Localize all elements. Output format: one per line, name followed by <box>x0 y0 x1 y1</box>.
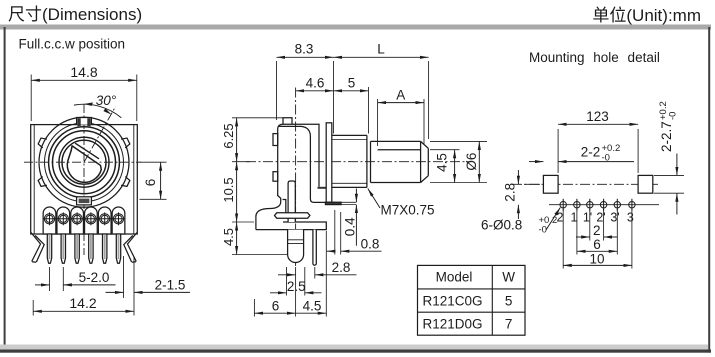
dimension 14.2 <box>32 300 34 316</box>
svg-text:1: 1 <box>571 210 578 224</box>
left tab upper <box>273 134 278 146</box>
dimension 4.5 side <box>296 312 327 314</box>
model table frame <box>418 265 526 335</box>
top tab side <box>283 118 292 124</box>
svg-text:3: 3 <box>627 210 634 224</box>
svg-text:2-2.7: 2-2.7 <box>659 121 674 152</box>
plate foot <box>325 202 341 204</box>
shaft <box>371 141 421 182</box>
svg-text:10: 10 <box>589 251 604 266</box>
dimension 6.25 <box>232 118 289 255</box>
svg-text:3': 3' <box>610 210 619 224</box>
svg-text:2.5: 2.5 <box>287 279 306 294</box>
centerline horizontal front view <box>24 161 141 163</box>
bushing end <box>367 135 371 187</box>
svg-text:6.25: 6.25 <box>221 123 236 148</box>
svg-text:-0: -0 <box>602 153 610 164</box>
rotor circle r22 <box>62 140 106 184</box>
svg-text:10.5: 10.5 <box>221 177 236 202</box>
svg-text:R121D0G: R121D0G <box>422 317 482 332</box>
svg-text:7: 7 <box>505 317 513 332</box>
dimension 5 <box>368 87 370 134</box>
dimension 6 mount <box>577 209 617 255</box>
left tab lower <box>273 172 278 182</box>
svg-text:-0: -0 <box>668 112 679 120</box>
pin eyelets <box>43 212 125 225</box>
frame right border <box>708 27 710 353</box>
frame top grey bar <box>0 25 711 30</box>
body base <box>256 222 326 230</box>
svg-text:8.3: 8.3 <box>295 42 314 57</box>
D-shaft hole <box>67 146 101 182</box>
svg-text:14.2: 14.2 <box>69 295 96 311</box>
svg-text:M7X0.75: M7X0.75 <box>381 203 435 218</box>
svg-text:Full.c.c.w position: Full.c.c.w position <box>19 37 126 52</box>
corner tab top-left <box>38 137 47 148</box>
top tab <box>77 118 92 125</box>
svg-text:30°: 30° <box>96 93 117 108</box>
svg-text:2-1.5: 2-1.5 <box>155 278 186 293</box>
svg-text:2.8: 2.8 <box>332 260 351 275</box>
dimension 2 mount <box>590 209 604 241</box>
svg-text:Model: Model <box>436 270 473 285</box>
terminal flange bar <box>275 213 310 218</box>
svg-text:0.4: 0.4 <box>342 217 357 236</box>
dimension 6 front <box>140 162 167 199</box>
dimension 8.3 <box>277 61 334 134</box>
frame bottom light bar <box>0 345 708 350</box>
frame left border <box>4 27 6 346</box>
label M7X0.75 <box>368 189 380 209</box>
mounting plate <box>326 123 332 203</box>
dimension 0.4 <box>341 202 356 204</box>
pin legs <box>47 234 120 263</box>
svg-text:2: 2 <box>593 223 601 238</box>
dimension 14.8 <box>31 75 137 122</box>
centerline horizontal side view <box>246 161 472 163</box>
svg-text:2.8: 2.8 <box>503 183 518 202</box>
svg-text:4.6: 4.6 <box>306 75 325 90</box>
rear leg side view <box>313 230 316 266</box>
svg-text:W: W <box>502 270 515 285</box>
svg-text:L: L <box>377 42 385 57</box>
centerline mounting detail <box>512 183 660 185</box>
svg-text:-0: -0 <box>539 225 547 236</box>
dimension 4.5 shaft <box>430 150 487 183</box>
dimension L <box>428 61 430 139</box>
dimension 4.5 left <box>236 222 238 255</box>
mounting slot right <box>638 175 653 193</box>
mounting slot left <box>543 175 558 193</box>
body lower-left step <box>256 196 281 230</box>
body inner profile <box>279 126 327 202</box>
wing bracket left <box>31 233 44 263</box>
centerline vertical side view <box>295 88 297 267</box>
shaft flat <box>378 149 421 151</box>
body front view <box>31 125 138 234</box>
centerline vertical front view <box>83 104 85 255</box>
svg-text:4.5: 4.5 <box>435 153 450 172</box>
svg-text:5: 5 <box>348 75 356 90</box>
wing bracket right <box>124 233 137 263</box>
left step <box>283 200 286 213</box>
dimension 5-2.0 <box>50 267 64 291</box>
body side view <box>278 124 319 196</box>
svg-text:4.5: 4.5 <box>303 299 322 314</box>
rotor circle r25 <box>59 137 109 187</box>
dimension 2-2.7 <box>654 175 684 193</box>
svg-text:123: 123 <box>586 109 609 124</box>
solder holes <box>560 199 635 211</box>
corner tab bottom-right <box>121 177 130 188</box>
rotor circle r31.5 <box>53 131 116 194</box>
corner tab top-right <box>121 137 130 148</box>
centerline 30deg tilted <box>84 106 116 162</box>
dimension 10.5 <box>236 162 238 222</box>
dimension A <box>378 99 424 146</box>
bottom tab <box>77 197 92 205</box>
pin pads <box>43 207 125 234</box>
svg-text:6: 6 <box>272 299 280 314</box>
eyelet pin side view <box>288 230 304 263</box>
shaft end chamfer <box>421 141 429 182</box>
svg-text:单位(Unit):mm: 单位(Unit):mm <box>592 6 701 25</box>
dimension 2.8 side <box>314 267 316 279</box>
svg-text:4.5: 4.5 <box>221 228 236 246</box>
corner tab bottom-left <box>38 177 47 188</box>
solder hole row line <box>549 204 659 206</box>
dimension 2.8 mount <box>517 170 519 184</box>
svg-text:0.8: 0.8 <box>361 236 380 251</box>
slot line <box>75 143 99 159</box>
label 6-dia0.8 <box>546 208 560 231</box>
dimension 4.6 <box>296 90 334 92</box>
rotor rim circle <box>39 117 129 207</box>
bushing thread lines <box>332 135 367 187</box>
svg-text:1': 1' <box>583 210 592 224</box>
svg-text:A: A <box>396 87 405 102</box>
svg-text:5-2.0: 5-2.0 <box>79 270 110 285</box>
dimension 2-1.5 <box>124 256 135 316</box>
angle arc 30deg <box>74 104 121 118</box>
dimension 2-2 <box>529 161 543 163</box>
svg-text:Ø6: Ø6 <box>464 153 479 171</box>
dimension 6 side <box>254 231 326 317</box>
rotor circle r35.4 <box>49 127 120 198</box>
dimension 123 <box>558 129 638 173</box>
svg-text:14.8: 14.8 <box>70 64 97 80</box>
dimension 2.5 <box>287 267 305 296</box>
svg-text:6: 6 <box>143 179 158 187</box>
svg-text:6: 6 <box>593 237 601 252</box>
dimension 10 mount <box>563 209 632 269</box>
terminal rod <box>288 181 295 222</box>
upper dark tab <box>318 187 330 189</box>
rotor circle r39.5 <box>45 123 124 202</box>
pin leg inner shading <box>50 235 119 259</box>
dimension dia6 shaft <box>430 140 487 142</box>
svg-text:R121C0G: R121C0G <box>422 293 482 308</box>
svg-text:Mounting hole detail: Mounting hole detail <box>529 50 660 65</box>
svg-text:6-Ø0.8: 6-Ø0.8 <box>481 218 522 233</box>
svg-text:2-2: 2-2 <box>581 145 601 160</box>
svg-text:5: 5 <box>505 293 513 308</box>
frame bottom dark bar <box>0 350 711 353</box>
dimension 0.8 <box>335 210 341 255</box>
svg-text:尺寸(Dimensions): 尺寸(Dimensions) <box>8 5 142 24</box>
